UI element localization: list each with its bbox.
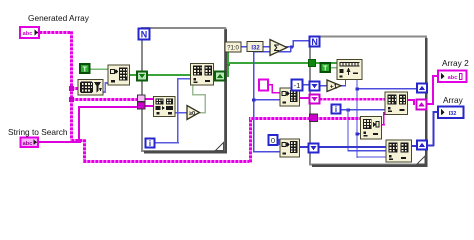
wire zero constant to initialize array 2 <box>277 139 280 145</box>
loop1 left green shift register terminal <box>137 72 147 81</box>
wire Generated Array trunk vertical <box>70 31 73 142</box>
wire sum to N terminal <box>286 40 310 47</box>
node Initialize Array (int) <box>280 139 300 157</box>
wire String to Search into loop1 solid tunnel <box>78 106 139 108</box>
wire loop1 i terminal horizontal <box>154 142 179 143</box>
wire i down to replace blue index <box>347 109 386 151</box>
svg-text:N: N <box>141 30 148 40</box>
wire boolean true T2 to search element input <box>330 67 337 68</box>
wire boolean array to loop2 green tunnel <box>227 62 311 64</box>
wire Generated Array lower jog horizontal <box>70 139 86 142</box>
svg-text:abc: abc <box>448 75 458 81</box>
wire Generated Array riser to loop2 tunnel <box>249 117 252 163</box>
svg-text:i: i <box>335 105 337 114</box>
svg-text:T: T <box>323 66 328 73</box>
wire loop2 i terminal to replace pink index <box>340 109 386 110</box>
node Replace Array Subset (loop1) <box>191 64 214 86</box>
node Replace Array Subset (pink, loop2) <box>385 92 408 115</box>
wire loop2 boolean array tunnel to search node <box>315 62 343 64</box>
svg-text:N: N <box>311 37 318 47</box>
svg-text:i: i <box>149 139 151 148</box>
wire I32 to sum <box>263 46 270 47</box>
junction on boolean array wire <box>226 62 230 66</box>
svg-text:String to Search: String to Search <box>8 127 68 137</box>
junction dot at index array input <box>356 132 359 135</box>
svg-text:Generated Array: Generated Array <box>28 13 90 23</box>
svg-text:Array 2: Array 2 <box>442 58 469 68</box>
wire increment to search start index <box>341 80 346 87</box>
loop2 int array shift register right (blue up, bottom) <box>417 141 427 150</box>
svg-text:≥0: ≥0 <box>189 111 195 117</box>
node Array Size <box>78 80 103 96</box>
wire question-one-zero to I32 <box>241 46 248 47</box>
node To Long Integer I32 <box>247 42 263 52</box>
wire geq0 boolean to replace element input <box>192 85 206 113</box>
control terminal Generated Array (string array) <box>20 27 39 38</box>
wire found index into replace blue element <box>356 156 386 157</box>
wire int array shift reg to replace blue <box>318 146 386 148</box>
indicator terminal Array (int array) <box>438 107 464 119</box>
constant -1 <box>292 80 303 91</box>
loop2 index shift register right (blue up) <box>417 84 427 93</box>
node Replace Array Subset (int, loop2) <box>386 140 412 162</box>
loop2 string array input tunnel (solid pink) <box>310 114 318 122</box>
svg-text:abc: abc <box>23 31 33 37</box>
wire branch to Array Size <box>73 87 79 90</box>
wire count down-left to initialize array sizes <box>253 47 291 152</box>
boolean constant T1 <box>80 64 90 74</box>
loop1 string input tunnel (solid) <box>138 102 146 109</box>
wire match offset to greater-equal-zero <box>175 112 188 113</box>
junction dot found index <box>356 87 359 90</box>
wire minus-one constant to loop2 index shift reg <box>302 84 311 85</box>
wire Generated Array into loop2 pink tunnel <box>249 117 311 120</box>
loop2 string array shift register right (pink up) <box>417 100 427 110</box>
wire Generated Array bottom run to loop2 <box>83 160 251 163</box>
wire Generated Array lower jog vertical <box>83 139 86 163</box>
node Add Array Elements (sum) <box>270 40 287 56</box>
svg-text:I32: I32 <box>251 46 260 52</box>
for loop 2 iteration terminal i <box>332 105 341 115</box>
svg-text:I32: I32 <box>449 111 457 117</box>
node Boolean To (0,1) <box>225 42 241 52</box>
junction dot on size wire <box>252 98 255 101</box>
wire array size to initialize array dimension (violet staircase) <box>103 82 108 93</box>
wire boolean true T1 to initialize array <box>89 69 108 71</box>
empty string constant <box>259 80 268 91</box>
wire empty string constant to initialize array <box>267 84 280 94</box>
boolean constant T2 <box>321 63 331 73</box>
wire String to Search riser <box>78 106 80 142</box>
wire search found index down <box>356 80 357 159</box>
control terminal String to Search (string) <box>21 138 39 148</box>
node increment +1 <box>327 80 341 92</box>
node greater-or-equal-to-zero <box>187 106 200 120</box>
constant 0 <box>269 135 278 145</box>
for loop 2 resize corner <box>417 156 425 164</box>
svg-text:T: T <box>83 67 88 74</box>
svg-text:-1: -1 <box>294 81 301 90</box>
for loop 2 border <box>310 37 428 168</box>
wire loop1 green shift reg to replace array subset <box>146 74 192 76</box>
wire found index to right shift register <box>356 88 417 89</box>
node Index Array (loop2) <box>361 117 382 140</box>
wire initialize array to loop1 green shift register <box>129 74 138 76</box>
wire int array final to Array indicator <box>426 111 438 147</box>
wire index array string out to replace pink element <box>381 112 386 126</box>
node Match Pattern (loop1) <box>154 97 176 117</box>
loop2 int array shift register left (blue down, bottom) <box>309 144 319 153</box>
for loop 1 count terminal N <box>139 29 150 40</box>
wire found index into index array <box>356 133 361 134</box>
junction dot on Generated Array at Array Size branch <box>69 86 74 91</box>
loop2 index shift register left (blue down) <box>310 82 320 91</box>
wire replace array subset to right green shift reg <box>213 74 217 76</box>
node Initialize Array (string) <box>280 88 300 106</box>
wire pink shift reg final to Array 2 indicator <box>426 75 438 105</box>
wire String to Search horizontal <box>37 141 81 143</box>
node Search 1D Array <box>337 60 362 80</box>
svg-text:0: 0 <box>271 136 275 145</box>
wire Generated Array trunk: terminal to first bend <box>38 31 72 34</box>
wire initialize array int out to loop2 bottom shift reg <box>299 146 309 148</box>
wire replace blue out to bottom up shift reg <box>411 145 418 147</box>
svg-text:abc: abc <box>23 141 33 147</box>
wire i into replace array subset <box>177 78 191 79</box>
node Initialize Array (boolean) <box>108 65 130 85</box>
for loop 2 count terminal N <box>310 37 320 48</box>
loop2 boolean array input tunnel (solid green) <box>309 60 316 67</box>
loop2 string array shift register left (pink down) <box>310 95 320 104</box>
loop1 right green shift register terminal <box>215 72 225 81</box>
loop1 auto-indexing input tunnel (string array) <box>138 95 146 102</box>
svg-text:?1:0: ?1:0 <box>227 46 239 52</box>
wire loop1 boolean array out to question-one-zero and loop2 <box>224 47 229 77</box>
for loop 1 border <box>142 28 227 154</box>
wire loop1 element string tunnel to match node <box>145 98 155 100</box>
indicator terminal Array 2 (string array) <box>438 71 467 83</box>
wire loop1 search string tunnel to match node <box>145 105 155 107</box>
wire branch to loop1 indexing tunnel <box>73 98 139 101</box>
svg-text:+1: +1 <box>330 83 338 90</box>
junction dot on sum output <box>290 45 293 48</box>
svg-text:Σ: Σ <box>274 43 280 54</box>
wire replace pink out to pink up shift reg <box>407 99 415 105</box>
wire initialize array string out to loop2 pink shift reg <box>299 97 310 99</box>
for loop 1 resize corner <box>216 143 224 151</box>
wire loop1 i riser to replace index input <box>177 78 178 143</box>
junction dot on Generated Array at tunnel branch <box>69 97 74 102</box>
svg-text:Array: Array <box>443 95 464 105</box>
for loop 1 iteration terminal i <box>146 139 155 149</box>
wire index shift reg to increment <box>319 85 327 86</box>
wire generated array tunnel to index array <box>318 117 361 120</box>
junction dot on i wire <box>347 108 350 111</box>
wire pink string array shift reg to replace pink <box>319 98 385 100</box>
